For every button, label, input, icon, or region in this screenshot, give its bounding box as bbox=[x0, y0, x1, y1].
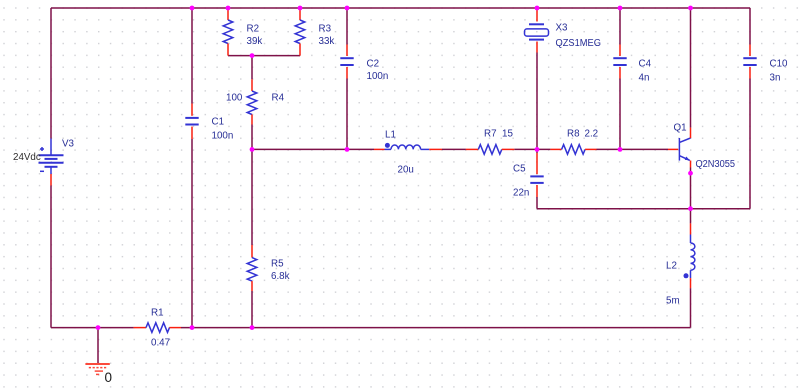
wire R5 to bottom rail bbox=[251, 291, 253, 328]
svg-text:Q1: Q1 bbox=[674, 122, 687, 133]
wire C1 branch upper bbox=[191, 8, 193, 104]
capacitor C4 bbox=[613, 45, 626, 79]
svg-text:4n: 4n bbox=[639, 72, 650, 83]
inductor L1 bbox=[374, 143, 442, 150]
svg-text:R2: R2 bbox=[247, 23, 260, 34]
svg-text:X3: X3 bbox=[556, 22, 569, 33]
wire left rail upper bbox=[50, 8, 52, 139]
wire C2 branch upper bbox=[346, 8, 348, 45]
wire Q1 emitter to lower rail bbox=[690, 168, 692, 209]
wire L2 lower link bbox=[690, 288, 692, 328]
wire R2-R3 bottom link bbox=[228, 55, 300, 57]
ground 0 bbox=[85, 364, 109, 374]
svg-text:L2: L2 bbox=[666, 261, 677, 272]
resistor R8 bbox=[550, 145, 596, 155]
transistor Q1 bbox=[668, 128, 691, 168]
svg-text:6.8k: 6.8k bbox=[271, 271, 290, 282]
svg-text:24Vdc: 24Vdc bbox=[13, 152, 41, 163]
junction bottom ground bbox=[96, 325, 101, 330]
wire C4 branch upper bbox=[619, 8, 621, 45]
svg-text:C10: C10 bbox=[770, 58, 789, 69]
wire C5 upper link bbox=[536, 149, 538, 153]
wire R4 upper link bbox=[251, 56, 253, 80]
svg-text:5m: 5m bbox=[666, 296, 680, 307]
svg-text:100: 100 bbox=[226, 92, 243, 103]
resistor R1 bbox=[134, 323, 181, 333]
svg-text:3n: 3n bbox=[770, 72, 781, 83]
wire C10 branch lower bbox=[749, 79, 751, 209]
svg-text:Q2N3055: Q2N3055 bbox=[696, 159, 736, 170]
svg-text:C2: C2 bbox=[367, 58, 380, 69]
wire bottom rail left of R1 bbox=[51, 327, 134, 329]
inductor L2 bbox=[684, 223, 695, 288]
capacitor C2 bbox=[340, 45, 353, 79]
junction mid C2 bbox=[345, 147, 350, 152]
capacitor C1 bbox=[185, 104, 198, 140]
resistor R4 bbox=[247, 79, 257, 124]
wire top rail bbox=[51, 7, 750, 9]
capacitor C5 bbox=[530, 153, 543, 197]
wire C10 branch upper bbox=[749, 8, 751, 45]
wire mid node to R5 bbox=[251, 149, 253, 245]
wire X3 to mid rail bbox=[536, 53, 538, 150]
junction mid C4 bbox=[618, 147, 623, 152]
junction top C2 bbox=[345, 6, 350, 11]
svg-text:100n: 100n bbox=[367, 71, 389, 82]
wire mid rail segment a bbox=[252, 148, 374, 150]
wire C1 branch lower bbox=[191, 139, 193, 328]
wire mid rail segment d bbox=[597, 148, 669, 150]
junction top Q1 collector bbox=[688, 6, 693, 11]
capacitor C10 bbox=[743, 45, 756, 79]
svg-text:0.47: 0.47 bbox=[151, 338, 170, 349]
wire mid rail segment c bbox=[514, 148, 550, 150]
svg-text:R5: R5 bbox=[271, 258, 284, 269]
svg-text:R3: R3 bbox=[319, 23, 332, 34]
svg-text:V3: V3 bbox=[62, 138, 75, 149]
junction R2 R3 R4 bbox=[250, 53, 255, 58]
wire lower rail bbox=[537, 208, 750, 210]
svg-text:39k: 39k bbox=[247, 36, 263, 47]
wire L2 upper link bbox=[690, 209, 692, 224]
svg-text:100n: 100n bbox=[212, 131, 234, 142]
svg-text:33k: 33k bbox=[319, 36, 335, 47]
wire mid rail segment b bbox=[442, 148, 466, 150]
svg-text:C1: C1 bbox=[212, 117, 225, 128]
wire R4 to mid node bbox=[251, 125, 253, 150]
svg-text:2.2: 2.2 bbox=[585, 128, 599, 139]
wire left rail lower bbox=[50, 186, 52, 328]
svg-text:R7: R7 bbox=[484, 128, 497, 139]
crystal X3 bbox=[525, 10, 549, 53]
junction top R2 bbox=[226, 6, 231, 11]
junction emitter pin bbox=[688, 171, 693, 176]
svg-text:R1: R1 bbox=[151, 307, 164, 318]
junction lower rail L2 bbox=[688, 206, 693, 211]
voltage source V3 24Vdc bbox=[39, 139, 64, 186]
wire ground stem bbox=[97, 328, 99, 364]
wire Q1 collector branch bbox=[690, 8, 692, 128]
junction top X3 bbox=[535, 6, 540, 11]
wire C4 branch lower bbox=[619, 79, 621, 150]
resistor R3 bbox=[295, 10, 305, 56]
junction top R3 bbox=[298, 6, 303, 11]
svg-text:C4: C4 bbox=[639, 58, 652, 69]
junction bottom C1 bbox=[190, 325, 195, 330]
resistor R7 bbox=[466, 145, 514, 155]
resistor R5 bbox=[247, 245, 257, 291]
junction mid R4 R5 bbox=[250, 147, 255, 152]
junction top C1 bbox=[190, 6, 195, 11]
svg-text:15: 15 bbox=[502, 128, 513, 139]
svg-text:22n: 22n bbox=[513, 188, 529, 199]
junction bottom R5 bbox=[250, 325, 255, 330]
resistor R2 bbox=[223, 10, 233, 56]
junction mid X3 C5 bbox=[535, 147, 540, 152]
svg-text:QZS1MEG: QZS1MEG bbox=[556, 38, 602, 49]
svg-text:R8: R8 bbox=[567, 128, 580, 139]
svg-text:20u: 20u bbox=[398, 164, 414, 175]
wire C2 branch lower bbox=[346, 79, 348, 150]
wire C5 lower link bbox=[536, 197, 538, 209]
svg-text:0: 0 bbox=[105, 370, 113, 385]
svg-text:R4: R4 bbox=[272, 92, 285, 103]
junction top C4 bbox=[618, 6, 623, 11]
svg-text:L1: L1 bbox=[385, 129, 396, 140]
svg-text:C5: C5 bbox=[513, 163, 526, 174]
wire bottom rail right of R1 bbox=[181, 327, 691, 329]
